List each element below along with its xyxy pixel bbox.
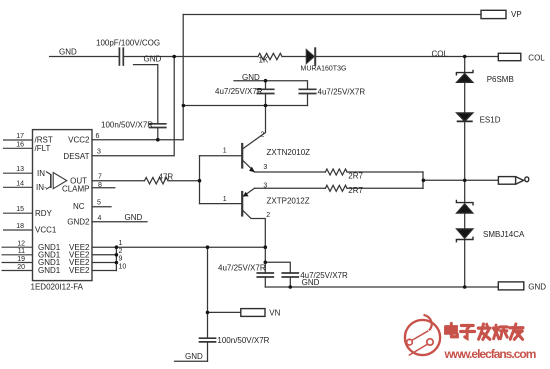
wire emitter to 2R7 [255,171,326,173]
diode D ES1D [457,113,473,121]
capacitor C 100pF/100V/COG [118,48,120,65]
svg-text:IN: IN [37,169,45,178]
svg-text:4u7/25V/X7R: 4u7/25V/X7R [218,263,266,272]
wire GND L to 100n cap [134,65,158,124]
transistor Q2 emitter [243,188,254,196]
svg-text:1ED020I12-FA: 1ED020I12-FA [31,282,84,291]
wire VCC2 pin6 [92,139,183,141]
node OUT port [498,177,515,185]
resistor 1K [258,53,282,59]
node VN port [241,309,265,317]
svg-text:19: 19 [17,256,25,263]
svg-text:CLAMP: CLAMP [62,185,90,194]
diode D MURA160T3G [306,49,314,63]
svg-text:GND: GND [59,48,77,57]
svg-text:1: 1 [119,240,123,247]
resistor R 2R7 upper [325,169,347,175]
svg-text:IN-: IN- [36,183,47,192]
svg-text:GND: GND [144,54,162,63]
svg-text:SMBJ14CA: SMBJ14CA [483,230,525,239]
capacitor C 100n/50V/X7R [150,123,166,125]
svg-text:GND: GND [125,213,143,222]
capacitor C 4u7/25V/X7R left-bottom [264,262,266,273]
watermark text shao [493,325,507,338]
diode TVS SMBJ14CA lower [456,229,473,242]
svg-text:4u7/25V/X7R: 4u7/25V/X7R [215,87,263,96]
svg-text:2: 2 [119,248,123,255]
capacitor C 4u7/25V/X7R right-top [299,88,315,90]
svg-text:16: 16 [16,141,24,148]
transistor Q2 ZXTP2012Z base bar [241,192,243,216]
svg-text:1: 1 [223,148,227,155]
transistor Q2 collector [243,211,265,262]
svg-text:18: 18 [16,223,24,230]
wire output [423,179,498,181]
capacitor C 4u7/25V/X7R left-top [265,81,267,90]
wire caps bottom to VCC rail [183,105,307,107]
diode TVS SMBJ14CA upper [456,200,473,213]
svg-text:COL: COL [432,49,449,58]
wire CLAMP pin8 stub [92,187,115,189]
watermark text dian [446,324,458,337]
net port boxes [241,10,529,316]
svg-text:VEE2: VEE2 [69,266,90,275]
svg-text:100n/50V/X7R: 100n/50V/X7R [101,120,153,129]
svg-text:VCC2: VCC2 [68,136,90,145]
node VP port [481,10,506,18]
svg-text:ZXTN2010Z: ZXTN2010Z [267,148,311,157]
resistor R 2R7 lower [325,185,347,191]
svg-text:www.elecfans.com: www.elecfans.com [444,347,536,361]
svg-text:2R7: 2R7 [348,186,363,195]
node GND label top-left [50,56,119,58]
transistor Q1 emitter arrow [249,167,255,173]
capacitor C 100n/50V/X7R bottom [200,337,216,339]
diode D P6SMB [456,70,473,83]
capacitor C 4u7/25V/X7R right-bottom [265,262,290,273]
svg-text:5: 5 [97,200,101,207]
svg-text:15: 15 [16,206,24,213]
pin names U1 left [35,136,61,276]
wire OUT pin7 and resistor 47R [92,180,145,182]
wire VCC2 riser [182,15,184,140]
svg-text:ZXTP2012Z: ZXTP2012Z [267,196,310,205]
wire DESAT pin3 [92,57,174,156]
svg-text:GND1: GND1 [38,266,61,275]
svg-text:3: 3 [97,149,101,156]
svg-text:ES1D: ES1D [480,115,501,124]
svg-text:3: 3 [263,182,267,189]
wire VEE2 rail [116,246,265,248]
svg-text:GND: GND [302,278,320,287]
svg-text:1: 1 [223,196,227,203]
IC U1 1ED020I12-FA body [33,130,93,281]
svg-text:VCC1: VCC1 [35,226,57,235]
svg-text:VN: VN [269,308,280,317]
wire NC pin5 stub [92,206,111,208]
IC U1 left pin stubs [2,140,33,271]
svg-text:GND: GND [242,73,260,82]
svg-text:8: 8 [98,182,102,189]
svg-text:4u7/25V/X7R: 4u7/25V/X7R [318,88,366,97]
node GND port [498,282,524,290]
transistor Q1 ZXTN2010Z collector [243,106,266,149]
svg-text:47R: 47R [159,173,174,182]
wire GND bottom [175,360,208,362]
svg-text:GND: GND [185,352,203,361]
watermark text you [510,324,523,339]
wire GND2 top caps [234,81,308,90]
svg-text:20: 20 [17,264,25,271]
op-amp buffer inside U1 [46,172,67,190]
svg-text:17: 17 [16,133,24,140]
wire to diode [282,56,306,58]
svg-text:DESAT: DESAT [63,152,89,161]
svg-text:10: 10 [119,264,127,271]
svg-text:100pF/100V/COG: 100pF/100V/COG [96,38,160,47]
transistor pin numbers [223,132,270,220]
svg-text:100n/50V/X7R: 100n/50V/X7R [217,336,269,345]
svg-text:11: 11 [18,248,25,255]
svg-text:9: 9 [119,256,123,263]
svg-text:3: 3 [263,164,267,171]
pin names U1 right [62,136,90,276]
svg-text:2: 2 [261,132,265,139]
svg-text:GND2: GND2 [67,217,90,226]
svg-text:6: 6 [96,133,100,140]
svg-text:VP: VP [511,10,522,19]
svg-text:7: 7 [98,174,102,181]
svg-text:2R7: 2R7 [348,171,363,180]
wire VP top rail [183,14,481,16]
svg-text:14: 14 [16,180,24,187]
transistor Q1 base bar [241,144,243,168]
svg-text:MURA160T3G: MURA160T3G [301,65,347,72]
watermark text fa [478,324,490,339]
wire 2R7 join [422,172,424,188]
watermark text zi [461,326,475,339]
pin numbers U1 right [96,133,127,271]
pin numbers U1 left [16,133,25,271]
wire DESAT sense [123,56,258,58]
transistor Q2 emitter arrow [243,192,249,197]
wire COL [315,56,498,58]
wire GND2 pin4 [92,221,147,223]
wire VEE2 pin stubs [92,246,116,248]
wire base drive [199,156,201,204]
wire VN riser [207,247,209,338]
svg-text:COL: COL [528,54,545,63]
svg-text:GND: GND [528,282,546,291]
svg-text:P6SMB: P6SMB [487,75,514,84]
svg-text:4: 4 [98,215,102,222]
transistor Q1 emitter [243,161,254,172]
svg-text:12: 12 [17,241,25,248]
svg-text:1K: 1K [259,56,269,65]
wire GND rail bottom [265,286,498,288]
watermark logo elecfans [405,315,440,356]
wire right column [464,57,466,73]
svg-text:NC: NC [73,202,85,211]
svg-text:2: 2 [266,212,270,219]
svg-text:13: 13 [16,166,24,173]
svg-text:/FLT: /FLT [35,144,51,153]
svg-text:RDY: RDY [35,209,53,218]
node COL port [498,53,521,60]
